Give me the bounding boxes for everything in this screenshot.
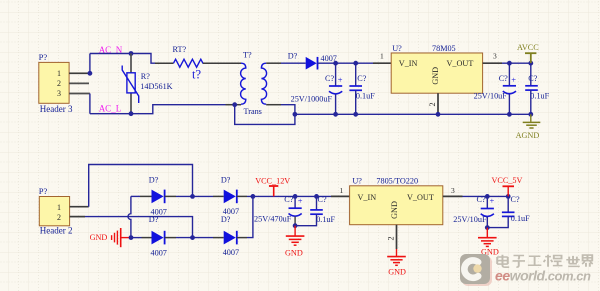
- junction primary bottom: [232, 102, 237, 107]
- svg-text:GND: GND: [388, 268, 406, 277]
- svg-text:+: +: [511, 74, 516, 84]
- svg-text:14D561K: 14D561K: [140, 82, 172, 91]
- pin 2 stub of Header 3: [69, 82, 89, 84]
- svg-text:4007: 4007: [223, 248, 239, 257]
- watermark chinese text: [497, 255, 593, 267]
- wire bridge bottom row left: [131, 237, 142, 239]
- capacitor C? 0.1uF (5V): [487, 195, 530, 228]
- svg-text:GND: GND: [431, 67, 440, 85]
- watermark logo dot: [473, 264, 481, 272]
- svg-text:3: 3: [493, 51, 497, 60]
- junction C0.1 top (12V): [314, 194, 319, 199]
- svg-text:1: 1: [57, 69, 61, 78]
- 电: [497, 255, 509, 267]
- connector P? Header 3: [39, 52, 73, 114]
- junction GND-bridge: [129, 235, 134, 240]
- junction caps gnd (12V): [293, 223, 298, 228]
- junction C10 top: [507, 61, 512, 66]
- svg-text:0.1uF: 0.1uF: [356, 92, 375, 101]
- diode D? 4007 (bottom-left): [149, 215, 167, 257]
- junction C0.1 top: [353, 61, 358, 66]
- junction pin1: [88, 71, 93, 76]
- wire primary bottom lead: [226, 104, 242, 106]
- transformer T? Trans: [241, 50, 267, 116]
- regulator U? 7805/TO220: [350, 176, 443, 224]
- capacitor C? 0.1uF (12V): [295, 195, 335, 226]
- svg-text:GND: GND: [90, 233, 108, 242]
- svg-text:+: +: [338, 74, 343, 84]
- varistor R? 14D561K: [122, 54, 172, 114]
- svg-text:C?: C?: [284, 195, 293, 204]
- wire pin2 over to bridge bottom: [85, 217, 193, 238]
- svg-text:V_IN: V_IN: [358, 193, 377, 202]
- pin 1 stub of Header 3: [69, 72, 90, 74]
- wire pin1 up and over to bridge top: [89, 165, 193, 207]
- pin 1 stub of Header 2: [70, 206, 89, 208]
- svg-text:D?: D?: [221, 215, 231, 224]
- svg-text:GND: GND: [390, 201, 399, 219]
- svg-text:VCC_5V: VCC_5V: [492, 176, 523, 185]
- capacitor C? 25V/470uF: [254, 195, 303, 226]
- svg-text:1: 1: [380, 51, 384, 60]
- power port AVCC: [517, 43, 539, 63]
- wire to U2 pin1: [331, 195, 350, 197]
- svg-text:0.1uF: 0.1uF: [316, 215, 335, 224]
- svg-text:3: 3: [57, 89, 61, 98]
- wire secondary top lead to diode: [266, 62, 281, 64]
- junction varistor top: [129, 51, 134, 56]
- svg-text:0.1uF: 0.1uF: [530, 91, 549, 100]
- junction C0.1 bottom: [353, 112, 358, 117]
- svg-text:+: +: [490, 195, 495, 205]
- secondary winding: [261, 63, 266, 104]
- svg-text:C?: C?: [499, 74, 508, 83]
- svg-text:C?: C?: [325, 74, 334, 83]
- ground GND (12V caps): [285, 226, 304, 258]
- junction U1 gnd: [436, 112, 441, 117]
- pin lead RT? left: [155, 62, 174, 64]
- ground GND (5V caps): [478, 228, 499, 257]
- svg-text:C?: C?: [511, 195, 520, 204]
- wire bridge top row left: [131, 195, 140, 197]
- junction C1000 bottom: [333, 112, 338, 117]
- junction secondary-rail: [293, 112, 298, 117]
- wire primary return rail: [235, 105, 295, 125]
- svg-text:2: 2: [57, 79, 61, 88]
- svg-text:P?: P?: [39, 52, 48, 62]
- capacitor C? 0.1uF (AVCC): [525, 63, 549, 114]
- svg-text:25V/1000uF: 25V/1000uF: [291, 95, 333, 104]
- svg-text:P?: P?: [39, 186, 48, 196]
- junction bridge top mid: [190, 194, 195, 199]
- 程: [544, 255, 563, 267]
- junction C1000 top: [333, 61, 338, 66]
- svg-text:Header 3: Header 3: [40, 104, 73, 114]
- wire AC_L horizontal: [90, 105, 226, 114]
- primary winding: [241, 63, 246, 104]
- junction C10 bottom: [507, 112, 512, 117]
- svg-text:D?: D?: [149, 175, 159, 184]
- 界: [582, 255, 593, 267]
- svg-text:t?: t?: [192, 67, 201, 81]
- svg-text:AGND: AGND: [516, 131, 540, 140]
- svg-text:AC_L: AC_L: [99, 103, 122, 113]
- svg-text:T?: T?: [243, 50, 252, 59]
- junction C10 top (5V): [485, 194, 490, 199]
- svg-text:U?: U?: [392, 44, 402, 53]
- connector P? Header 2: [39, 186, 73, 236]
- svg-text:0.1uF: 0.1uF: [511, 214, 530, 223]
- 工: [528, 256, 541, 265]
- wire pin3 down to AC_L: [89, 94, 91, 114]
- wire U2 output: [463, 195, 509, 197]
- capacitor C? 25V/1000uF: [291, 63, 343, 114]
- pin 2 stub of U1: [437, 93, 439, 114]
- capacitor C? 0.1uF top mid: [349, 63, 375, 114]
- svg-text:AVCC: AVCC: [517, 43, 539, 52]
- junction varistor bottom: [129, 111, 134, 116]
- svg-text:R?: R?: [141, 72, 150, 81]
- power port VCC_12V: [255, 177, 290, 197]
- watermark logo C: [464, 260, 478, 277]
- capacitor C? 25V/10uF (5V): [453, 195, 494, 228]
- junction VCC_5V: [506, 194, 511, 199]
- power port GND (red, rotated): [90, 228, 131, 247]
- diode D? 4007 (top-left): [149, 175, 167, 216]
- wire top ground rail: [295, 113, 531, 115]
- wire AC_N horizontal: [90, 54, 155, 64]
- wire RT? to transformer: [203, 62, 241, 64]
- svg-text:25V/10uF: 25V/10uF: [453, 215, 487, 224]
- wire diode cathode to U1: [318, 62, 374, 64]
- svg-text:V_OUT: V_OUT: [407, 193, 434, 202]
- svg-text:D?: D?: [149, 215, 159, 224]
- wire D1 to mid: [165, 195, 176, 197]
- junction bridge bottom mid: [190, 235, 195, 240]
- svg-text:C?: C?: [477, 195, 486, 204]
- watermark logo shadow: [462, 256, 492, 286]
- pin 3 stub of U2: [443, 195, 463, 197]
- svg-text:2: 2: [386, 236, 395, 240]
- wire bridge left vertical with hop: [128, 196, 131, 237]
- svg-text:GND: GND: [285, 249, 303, 258]
- wire D4 up to output: [237, 237, 247, 239]
- svg-text:D?: D?: [288, 51, 298, 60]
- svg-text:RT?: RT?: [173, 45, 187, 54]
- pin 2 stub of U2: [396, 225, 398, 249]
- svg-text:+: +: [298, 195, 303, 205]
- svg-text:C?: C?: [528, 74, 537, 83]
- svg-text:2: 2: [57, 213, 61, 222]
- regulator U? 78M05: [391, 44, 482, 93]
- pin 3 stub of Header 3: [69, 93, 90, 95]
- svg-text:Header 2: Header 2: [40, 226, 73, 236]
- svg-text:1: 1: [340, 186, 344, 195]
- svg-text:25V/470uF: 25V/470uF: [254, 215, 292, 224]
- svg-text:D?: D?: [221, 175, 231, 184]
- junction rail AGND: [528, 112, 533, 117]
- pin 1 stub of U1: [373, 62, 391, 64]
- capacitor C? 25V/10uF (AVCC): [474, 63, 517, 114]
- diode D? 4007 (top-right): [221, 175, 239, 216]
- svg-text:VCC_12V: VCC_12V: [255, 177, 290, 186]
- wire pin1 up to AC_N: [89, 54, 91, 74]
- pin 3 stub of U1: [483, 62, 502, 64]
- wire D3 to VCC_12V node: [237, 195, 247, 197]
- junction caps gnd (5V): [485, 225, 490, 230]
- svg-text:V_OUT: V_OUT: [447, 59, 474, 68]
- junction AVCC: [528, 61, 533, 66]
- watermark logo: [460, 254, 490, 284]
- svg-text:25V/10uF: 25V/10uF: [474, 91, 508, 100]
- wire secondary bottom lead: [266, 104, 281, 106]
- svg-text:2: 2: [428, 102, 437, 106]
- svg-text:4007: 4007: [151, 248, 167, 257]
- wire D2 to mid: [165, 237, 176, 239]
- junction C470 top: [293, 194, 298, 199]
- svg-text:7805/TO220: 7805/TO220: [376, 176, 418, 185]
- power port VCC_5V: [492, 176, 523, 197]
- 子: [513, 255, 525, 267]
- wire U1 output: [502, 62, 531, 64]
- thermistor RT? t?: [173, 45, 204, 81]
- svg-text:78M05: 78M05: [432, 44, 456, 53]
- svg-text:eeworld.com.cn: eeworld.com.cn: [495, 268, 591, 284]
- svg-text:3: 3: [451, 186, 455, 195]
- diode D? 4007: [288, 51, 337, 69]
- pin 2 stub of Header 2: [70, 216, 85, 218]
- ground GND (U2): [387, 249, 406, 277]
- diode D? 4007 (bottom-right): [221, 215, 239, 257]
- svg-text:C?: C?: [357, 74, 366, 83]
- svg-text:V_IN: V_IN: [399, 59, 418, 68]
- svg-text:1: 1: [57, 203, 61, 212]
- junction bridge out: [251, 194, 256, 199]
- svg-text:Trans: Trans: [244, 107, 262, 116]
- svg-text:U?: U?: [352, 176, 362, 185]
- 世: [566, 256, 579, 267]
- ground AGND earth symbol: [516, 114, 541, 140]
- svg-text:C?: C?: [318, 195, 327, 204]
